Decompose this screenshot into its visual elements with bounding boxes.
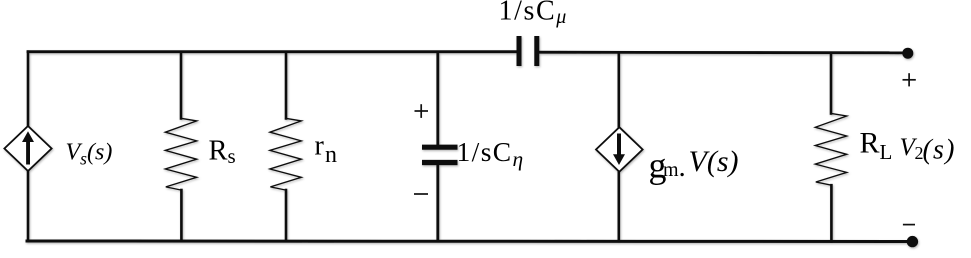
svg-text:RL: RL	[860, 127, 893, 164]
svg-text:rn: rn	[315, 131, 338, 169]
wire: Rs branch upper stub	[180, 52, 183, 119]
resistor RL zigzag	[815, 113, 846, 185]
output terminal bottom (node -)	[907, 236, 918, 247]
capacitor C_eta top plate	[422, 145, 458, 150]
wire: C_eta branch lower stub	[436, 165, 439, 241]
wire: rn branch lower stub	[285, 190, 288, 241]
resistor Rs zigzag	[165, 118, 196, 190]
svg-text:.: .	[679, 151, 686, 183]
voltage source V_s arrow (up)	[22, 131, 34, 164]
wire: rn branch upper stub	[285, 52, 288, 119]
svg-text:Rs: Rs	[209, 136, 236, 168]
wire: RL branch lower stub	[830, 185, 833, 241]
wire: left branch upper segment	[27, 52, 30, 127]
wire: gm source branch upper stub	[617, 53, 620, 129]
svg-text:Vs(s): Vs(s)	[66, 140, 113, 169]
wire: Rs branch lower stub	[180, 190, 183, 241]
output terminal top (node +)	[902, 48, 913, 59]
polarity - of C_eta	[414, 193, 428, 195]
capacitor C_eta bottom plate	[422, 160, 458, 165]
current source gm.V(s) diamond	[596, 127, 643, 172]
wire: top rail left segment (left node to Cmu left plate)	[28, 50, 517, 53]
svg-text:m: m	[663, 159, 679, 181]
wire: top rail right segment (Cmu right plate to output terminal)	[539, 51, 906, 54]
wire: left branch lower segment	[27, 170, 30, 241]
capacitor C_mu right plate	[534, 36, 539, 66]
polarity + of C_eta	[415, 104, 429, 118]
wire: RL branch upper stub	[830, 53, 833, 114]
label V_2(s)	[900, 134, 956, 165]
polarity - of output V2	[903, 224, 915, 226]
svg-text:1/sCμ: 1/sCμ	[499, 0, 567, 28]
capacitor C_mu left plate	[517, 36, 522, 66]
wire: bottom rail	[27, 240, 911, 244]
svg-text:1/sCη: 1/sCη	[457, 136, 524, 171]
voltage source V_s diamond	[4, 126, 51, 171]
wire: gm source branch lower stub	[617, 171, 620, 241]
svg-text:(s): (s)	[923, 135, 956, 166]
svg-text:V(s): V(s)	[689, 145, 739, 178]
wire: C_eta branch upper stub	[436, 52, 439, 145]
resistor rn zigzag	[270, 118, 301, 190]
current source gm.V(s) arrow (down)	[613, 134, 625, 166]
label gm.V(s)	[649, 145, 739, 185]
polarity + of output V2	[903, 73, 916, 86]
